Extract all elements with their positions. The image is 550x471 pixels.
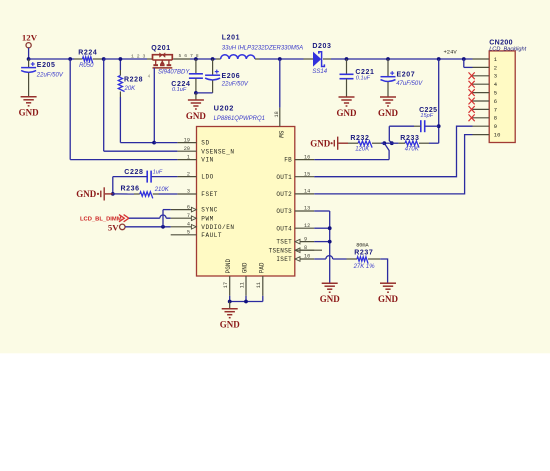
no-connect X on CN200 pin 5	[469, 89, 475, 96]
svg-text:SS14: SS14	[312, 69, 327, 75]
svg-text:PAD: PAD	[258, 262, 265, 273]
wire rail to R228	[119, 59, 121, 70]
wire ISET with hop over vertical	[314, 256, 346, 259]
schematic sheet background	[0, 0, 550, 353]
svg-text:1 2 3: 1 2 3	[131, 53, 146, 59]
junction SW node	[278, 57, 282, 61]
junction C224 top	[194, 57, 198, 61]
U202 pin 6 SYNC	[171, 209, 197, 211]
wire OUT3/OUT4/TSET to gnd	[329, 211, 331, 283]
U202 pin 15 OUT1	[295, 176, 314, 178]
svg-text:VIN: VIN	[201, 157, 213, 164]
svg-text:15pF: 15pF	[420, 113, 433, 119]
U202 pin 16 FB	[295, 159, 314, 161]
wire VSENSE_N	[104, 150, 178, 152]
wire C225 right	[426, 125, 439, 127]
svg-text:2: 2	[494, 64, 497, 71]
svg-text:9: 9	[304, 236, 307, 242]
ground GND at R237	[380, 283, 396, 292]
svg-text:8: 8	[494, 115, 497, 122]
no-connect X on CN200 pin 3	[469, 72, 475, 79]
CN200 pin 9	[473, 125, 490, 127]
ground GND at C221	[339, 97, 355, 106]
svg-text:E207: E207	[397, 71, 416, 78]
svg-text:GND: GND	[378, 294, 399, 304]
junction GND pin	[244, 300, 248, 304]
svg-text:0.1uF: 0.1uF	[356, 76, 371, 82]
svg-text:19: 19	[184, 137, 190, 143]
CN200 pin 2	[473, 66, 490, 68]
wire C225 leg down	[389, 126, 392, 143]
svg-text:80mA: 80mA	[356, 242, 369, 248]
transistor Q201 SI9407BDY P-MOSFET	[153, 55, 173, 68]
wire SD	[154, 142, 177, 144]
svg-text:GND: GND	[242, 262, 249, 273]
CN200 pin 4	[473, 83, 490, 85]
resistor R237 body	[357, 257, 368, 264]
svg-text:GND: GND	[320, 294, 341, 304]
wire E206 to gnd junction	[196, 92, 213, 94]
wire to SD junction	[120, 142, 154, 144]
wire to gnd	[229, 302, 231, 309]
junction FB divider drop	[437, 57, 441, 61]
junction TSET	[328, 240, 332, 244]
svg-text:Q201: Q201	[151, 45, 171, 52]
junction 12V/E205	[27, 57, 31, 61]
svg-text:SD: SD	[201, 140, 209, 147]
pin C225 left	[414, 125, 421, 127]
svg-text:R050: R050	[79, 63, 94, 69]
U202 pin 2 LDO	[177, 176, 196, 178]
wire 12V rail to R224	[29, 58, 74, 60]
svg-text:OUT1: OUT1	[276, 174, 292, 181]
svg-text:ISET: ISET	[276, 256, 292, 263]
capacitor E207	[381, 71, 396, 81]
svg-text:22uF/50V: 22uF/50V	[36, 72, 64, 78]
svg-text:9: 9	[494, 123, 497, 130]
wire LDO to C228	[151, 176, 177, 178]
svg-text:SI9407BDY: SI9407BDY	[158, 70, 190, 76]
svg-text:18: 18	[274, 111, 280, 117]
pin E206 bottom	[212, 80, 214, 93]
wire to SYNC	[163, 209, 171, 211]
wire Q201 to L201	[190, 58, 216, 60]
svg-text:CN200: CN200	[489, 39, 513, 46]
svg-text:5: 5	[494, 90, 497, 97]
svg-text:OUT3: OUT3	[276, 208, 292, 215]
wire C228 left	[113, 176, 147, 178]
svg-text:47uF/50V: 47uF/50V	[396, 81, 423, 87]
junction R224 left	[68, 57, 72, 61]
wire R237 to gnd	[380, 259, 387, 283]
svg-text:7: 7	[494, 106, 497, 113]
pin E205 top	[28, 59, 30, 68]
svg-text:VDDIO/EN: VDDIO/EN	[201, 224, 234, 231]
svg-text:10: 10	[304, 254, 310, 260]
wire R228 to SD net	[119, 97, 121, 143]
svg-text:GND: GND	[19, 108, 40, 118]
svg-text:2: 2	[187, 171, 190, 177]
svg-text:GND: GND	[378, 108, 399, 118]
wire SYNC branch vertical	[162, 210, 164, 227]
svg-text:470K: 470K	[405, 147, 420, 153]
U202 pin 5 FAULT	[171, 234, 197, 236]
wire FB node	[384, 142, 398, 144]
svg-text:GND: GND	[337, 108, 358, 118]
svg-text:D203: D203	[312, 43, 331, 50]
pin C221 top	[346, 59, 348, 74]
wire +24V to pin2	[463, 59, 465, 67]
CN200 pin 10	[473, 134, 490, 136]
wire GND down	[245, 296, 247, 302]
svg-text:R233: R233	[400, 135, 419, 142]
capacitor C225	[421, 120, 425, 132]
pin R237.1	[347, 258, 358, 260]
CN200 pin 6	[473, 100, 490, 102]
wire PAD down	[262, 296, 264, 302]
svg-text:OUT2: OUT2	[276, 191, 292, 198]
junction C224/E206 gnd	[194, 91, 198, 95]
resistor R232 body	[358, 141, 372, 148]
no-connect X on CN200 pin 7	[469, 106, 475, 113]
no-connect X on CN200 pin 6	[469, 98, 475, 105]
pin R236.2	[153, 193, 159, 195]
wire 5V to VDDIO	[125, 226, 171, 228]
U202 pin 8 TSENSE	[295, 249, 314, 251]
svg-text:SW: SW	[277, 131, 284, 139]
svg-text:TSET: TSET	[276, 239, 292, 246]
U202 pin 7 PWM	[171, 217, 197, 219]
svg-text:R237: R237	[354, 250, 373, 257]
capacitor C224	[189, 74, 203, 78]
svg-text:14: 14	[304, 189, 310, 195]
svg-text:22uF/50V: 22uF/50V	[221, 82, 249, 88]
svg-text:1: 1	[187, 154, 190, 160]
pin C221 bottom	[346, 79, 348, 97]
svg-text:4: 4	[187, 222, 190, 228]
capacitor E206	[205, 70, 220, 80]
U202 pin 19 SD	[177, 142, 196, 144]
svg-text:11: 11	[256, 282, 262, 288]
wire R236 to FSET	[159, 193, 178, 195]
pin R224.2	[93, 58, 104, 60]
svg-text:27K 1%: 27K 1%	[353, 264, 376, 270]
pin R228.2	[119, 92, 121, 98]
pin R236.1	[134, 193, 140, 195]
U202 pin 13 OUT3	[295, 210, 314, 212]
svg-text:5V: 5V	[108, 222, 119, 232]
svg-text:L201: L201	[222, 34, 240, 41]
wire SW node to pin18	[279, 59, 281, 108]
svg-text:0.1uF: 0.1uF	[172, 87, 187, 93]
svg-text:FAULT: FAULT	[201, 232, 222, 239]
pin L201.1	[216, 58, 221, 60]
svg-text:FB: FB	[284, 157, 292, 164]
pin E206 top	[212, 59, 214, 75]
wire FB pin up to divider	[384, 143, 389, 159]
pin Q201 source	[147, 58, 153, 60]
svg-text:E206: E206	[222, 73, 241, 80]
svg-text:U202: U202	[214, 104, 234, 113]
svg-text:+24V: +24V	[444, 49, 458, 56]
pin R228.1	[119, 70, 121, 76]
ground GND at C224	[188, 100, 204, 109]
junction CN200 pin2 drop	[462, 57, 466, 61]
svg-text:33uH IHLP3232DZER330M5A: 33uH IHLP3232DZER330M5A	[222, 45, 303, 51]
pin R237.2	[368, 258, 380, 260]
U202 pin 11 GND	[245, 276, 247, 296]
svg-text:GND: GND	[220, 320, 241, 330]
pin C224 bottom	[195, 78, 197, 93]
U202 pin 14 OUT2	[295, 193, 314, 195]
12V terminal circle	[26, 43, 31, 48]
U202 pin 10 ISET	[295, 258, 314, 260]
diode D203 SS14 schottky	[313, 52, 321, 67]
svg-text:E205: E205	[37, 62, 56, 69]
svg-text:12: 12	[304, 223, 310, 229]
capacitor C221	[340, 74, 354, 78]
pin D203 anode	[304, 58, 314, 60]
svg-text:LP8861QPWPRQ1: LP8861QPWPRQ1	[214, 116, 265, 122]
svg-text:R224: R224	[78, 49, 97, 56]
no-connect X on CN200 pin 4	[469, 81, 475, 88]
svg-text:15: 15	[304, 171, 310, 177]
junction 5V/SYNC branch	[161, 225, 165, 229]
pin R233.1	[398, 142, 405, 144]
svg-text:20: 20	[184, 146, 190, 152]
svg-text:5: 5	[187, 230, 190, 236]
pin R233.2	[419, 142, 429, 144]
junction C228/R236/GND	[111, 192, 115, 196]
wire Q201 gate down	[153, 68, 155, 143]
wire R233 right	[429, 142, 439, 144]
svg-text:VSENSE_N: VSENSE_N	[201, 148, 234, 155]
U202 pin 20 VSENSE_N	[177, 150, 196, 152]
svg-text:SYNC: SYNC	[201, 207, 218, 214]
svg-text:3: 3	[494, 73, 497, 80]
junction C225/R233/FB	[390, 141, 394, 145]
ground GND at E207	[380, 97, 396, 106]
junction R228 top	[119, 57, 123, 61]
svg-text:7: 7	[187, 213, 190, 219]
wire to VSENSE_N	[103, 59, 105, 151]
pin D203 cathode	[323, 58, 331, 60]
wire VIN	[70, 159, 177, 161]
Q201 substrate arrow	[160, 60, 165, 64]
svg-text:13: 13	[304, 206, 310, 212]
ground GND at TSET	[322, 283, 338, 292]
svg-text:TSENSE: TSENSE	[269, 247, 293, 254]
U202 pin 12 OUT4	[295, 227, 314, 229]
junction E206 top	[211, 57, 215, 61]
connector CN200 LCD Backlight	[489, 51, 515, 143]
pin R232.2	[372, 142, 381, 144]
wire +24V rail	[331, 58, 473, 60]
resistor R233 body	[405, 141, 419, 148]
wire L201 to D203	[260, 58, 304, 60]
pin C224 top	[195, 59, 197, 74]
junction OUT4	[328, 226, 332, 230]
U202 pin 18 SW	[279, 108, 281, 127]
svg-text:11: 11	[239, 282, 245, 288]
wire R232 right	[381, 142, 384, 144]
U202 pin 17 PGND	[229, 276, 231, 296]
op-amp U1 IC U202 LP8861QPWPRQ1	[197, 127, 295, 277]
wire TSENSE stub	[295, 249, 322, 251]
pin R224.1	[74, 58, 83, 60]
svg-text:10: 10	[494, 132, 501, 139]
svg-text:PGND: PGND	[225, 258, 232, 273]
svg-text:LCD_Backlight: LCD_Backlight	[489, 46, 526, 52]
junction C221	[345, 57, 349, 61]
wire FB	[314, 159, 389, 161]
wire 12V to rail	[28, 48, 30, 59]
pin E207 bottom	[387, 82, 389, 97]
svg-text:OUT4: OUT4	[276, 225, 292, 232]
junction C225 right	[437, 124, 441, 128]
svg-text:6: 6	[187, 204, 190, 210]
CN200 pin 7	[473, 108, 490, 110]
inductor L201	[221, 55, 255, 59]
U202 pin 4 VDDIO/EN	[171, 226, 197, 228]
svg-text:R236: R236	[121, 185, 140, 192]
chevron for LCD_BL_DIMM	[119, 215, 129, 222]
CN200 pin 3	[473, 75, 490, 77]
svg-text:PWM: PWM	[201, 215, 213, 222]
ground GND at U202	[222, 309, 238, 318]
wire TSET	[314, 241, 330, 243]
wire to CN200 pin2	[464, 66, 473, 68]
wire OUT2 to CN200 pin10	[314, 135, 472, 194]
svg-text:3: 3	[187, 189, 190, 195]
junction E207	[386, 57, 390, 61]
no-connect X on CN200 pin 8	[469, 114, 475, 121]
wire to gnd symbol	[195, 93, 197, 100]
capacitor C228	[147, 171, 151, 183]
svg-text:210K: 210K	[154, 187, 170, 193]
wire R224 to Q201	[104, 58, 147, 60]
wire gnd bus	[230, 301, 263, 303]
pin Q201 drain	[173, 58, 190, 60]
svg-text:LDO: LDO	[201, 174, 213, 181]
svg-text:R228: R228	[124, 77, 143, 84]
Q201 body diode bowtie	[160, 53, 166, 58]
svg-text:17: 17	[223, 282, 229, 288]
junction SD/gate/R228	[152, 141, 156, 145]
capacitor E205	[21, 62, 36, 72]
wire C225 to FB	[389, 125, 414, 127]
pin L201.2	[255, 58, 260, 60]
svg-text:R232: R232	[350, 135, 369, 142]
wire OUT1 to CN200 pin9	[314, 126, 472, 177]
wire C228 to gnd node	[112, 177, 114, 194]
svg-text:6: 6	[494, 98, 497, 105]
wire 12V to VIN	[69, 59, 71, 160]
CN200 pin 5	[473, 92, 490, 94]
svg-text:20K: 20K	[124, 86, 137, 92]
junction R232/FB	[382, 141, 386, 145]
5V terminal circle	[120, 224, 126, 230]
junction PGND	[228, 300, 232, 304]
svg-text:1uF: 1uF	[153, 169, 163, 175]
svg-text:16: 16	[304, 154, 310, 160]
svg-text:GND: GND	[76, 189, 97, 199]
resistor R236 body	[140, 192, 153, 199]
wire OUT4	[314, 227, 330, 229]
pin E205 bottom	[28, 73, 30, 97]
wire PWM with hop	[129, 215, 171, 218]
svg-text:GND: GND	[186, 111, 207, 121]
U202 pin 3 FSET	[177, 193, 196, 195]
svg-text:12V: 12V	[22, 33, 38, 43]
junction R224 right	[102, 57, 106, 61]
wire PGND down	[229, 296, 231, 302]
wire +24V down to R233	[438, 59, 440, 143]
ground GND at E205	[21, 97, 37, 106]
resistor R228 body	[118, 76, 124, 92]
svg-text:120K: 120K	[355, 147, 370, 153]
U202 pin 9 TSET	[295, 241, 314, 243]
svg-text:GND: GND	[310, 138, 331, 148]
pin E207 top	[387, 59, 389, 77]
wire to R236	[113, 193, 134, 195]
CN200 pin 8	[473, 117, 490, 119]
svg-text:C228: C228	[124, 169, 143, 176]
wire OUT3	[314, 210, 330, 212]
svg-text:FSET: FSET	[201, 191, 218, 198]
CN200 pin 1	[473, 58, 490, 60]
U202 pin 11 PAD	[262, 276, 264, 296]
pin R232.1	[348, 142, 358, 144]
resistor R224 body	[83, 57, 93, 63]
U202 pin 1 VIN	[177, 159, 196, 161]
